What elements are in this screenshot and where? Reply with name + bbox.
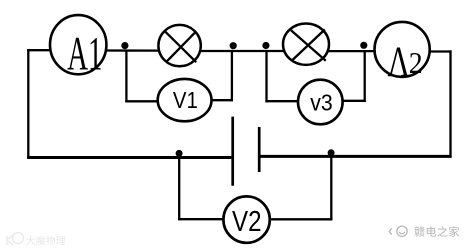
wire V2 branch left horizontal	[178, 218, 224, 220]
svg-text:A1: A1	[67, 28, 102, 81]
node dot 4	[360, 42, 367, 49]
wire V2 branch right horizontal	[270, 218, 333, 220]
node dot 6 on bus	[328, 149, 335, 156]
voltmeter V3	[298, 80, 343, 125]
svg-text:v3: v3	[310, 90, 333, 116]
svg-text:V1: V1	[173, 87, 198, 113]
svg-text:V2: V2	[232, 206, 262, 238]
wire right vertical	[449, 50, 451, 157]
node dot 1	[121, 42, 128, 49]
wire left vertical	[27, 49, 29, 159]
watermark logo bottom-right	[389, 226, 407, 236]
wire V2 branch right rise	[330, 153, 332, 221]
voltmeter V1	[158, 79, 212, 121]
wire lamp L2 to ammeter A2	[327, 50, 376, 52]
wire V3 branch left drop	[265, 50, 267, 102]
wire V2 branch left drop	[178, 154, 180, 220]
wire bottom bus right	[260, 155, 452, 158]
wire A1 to lamp L1	[106, 49, 160, 51]
wire V1 branch left horizontal	[125, 100, 158, 102]
svg-text:2: 2	[409, 47, 423, 81]
wire V3 branch right rise	[364, 50, 366, 102]
wire V3 branch right horizontal	[342, 100, 366, 102]
battery left plate	[231, 117, 234, 186]
voltmeter V2	[223, 196, 269, 242]
watermark text bottom-right	[414, 226, 425, 236]
node dot 3	[262, 42, 269, 49]
wire lamp L1 to lamp L2	[200, 50, 284, 52]
lamp L2	[283, 24, 329, 65]
wire left-top horizontal	[27, 49, 51, 51]
svg-text:Λ: Λ	[388, 39, 410, 86]
wire V3 branch left horizontal	[265, 100, 298, 102]
wire V1 branch right horizontal	[211, 99, 233, 101]
node dot 5 on bus	[176, 150, 183, 157]
wire A2 to right corner	[429, 50, 452, 52]
node dot 2	[230, 42, 237, 49]
wire V1 branch right rise	[231, 50, 233, 101]
watermark text bottom-left	[26, 236, 35, 245]
ammeter A2	[375, 22, 430, 86]
wire bottom bus left	[27, 156, 231, 159]
battery right plate	[258, 127, 261, 172]
wire V1 branch left drop	[125, 50, 127, 103]
lamp L1	[158, 25, 200, 66]
watermark logo bottom-left	[7, 233, 24, 246]
ammeter A1	[50, 15, 106, 80]
